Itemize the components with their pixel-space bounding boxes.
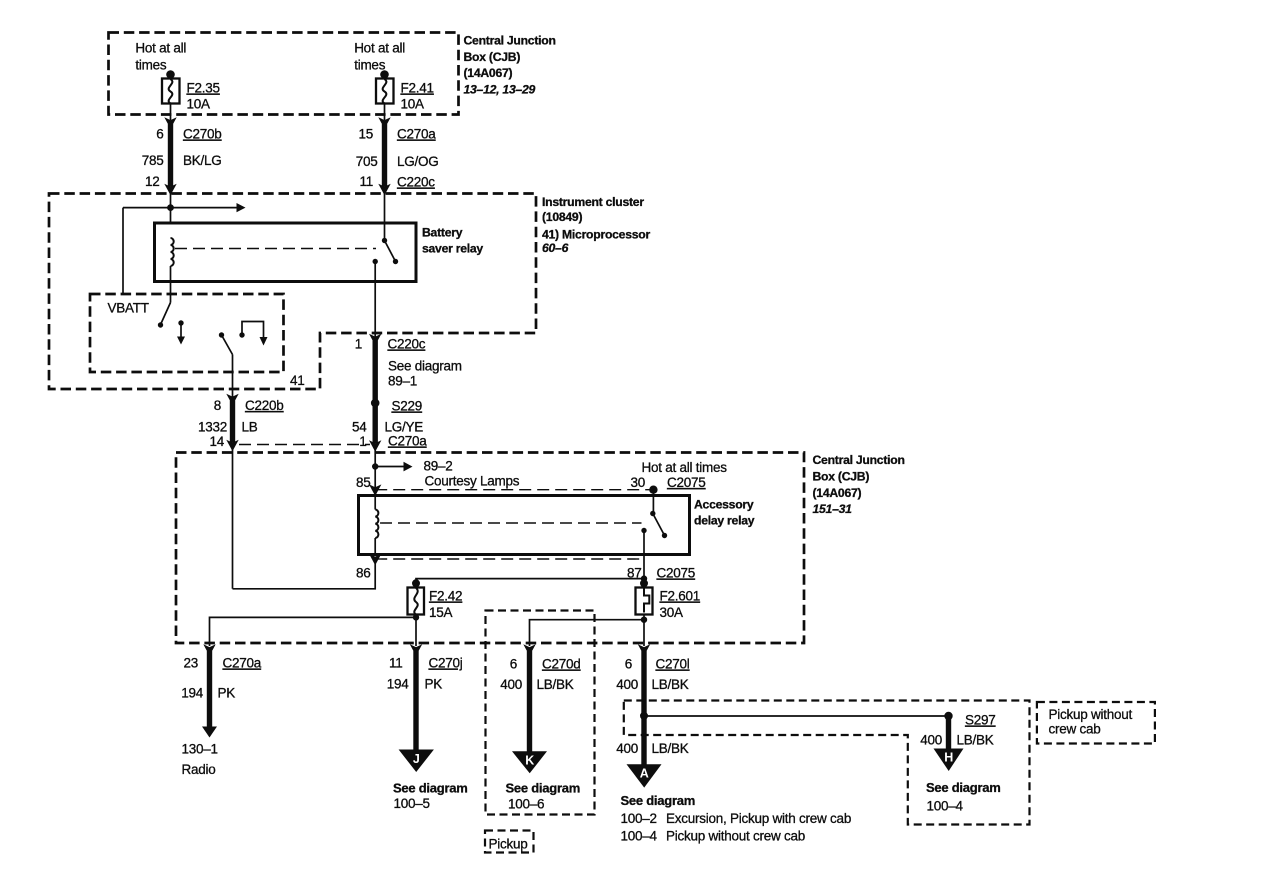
svg-text:1: 1: [359, 434, 366, 449]
fuse F2.601: [636, 579, 701, 620]
wire fuse F2.41 to connector C220c: [378, 104, 390, 241]
svg-text:400: 400: [920, 733, 942, 748]
wire C220c to S229 thick: [369, 334, 381, 510]
label wire C270a pin 15 705 LG/OG pin 11 C220c: [356, 127, 439, 190]
svg-text:H: H: [944, 751, 953, 765]
wire fuse F2.35 to connector C270b: [164, 104, 176, 224]
svg-text:6: 6: [510, 657, 517, 672]
svg-text:Pickup without crew cab: Pickup without crew cab: [666, 829, 805, 844]
connector link C270a dashed line: [239, 444, 370, 446]
svg-text:C270a: C270a: [388, 434, 427, 449]
svg-text:Radio: Radio: [182, 762, 216, 777]
svg-text:Hot at all: Hot at all: [354, 41, 405, 56]
svg-text:Battery: Battery: [422, 226, 463, 240]
svg-text:89–2: 89–2: [424, 459, 453, 474]
svg-text:F2.41: F2.41: [401, 81, 434, 96]
svg-text:194: 194: [181, 686, 204, 701]
svg-text:C220c: C220c: [388, 337, 426, 352]
box Central Junction Box CJB top: [109, 33, 459, 115]
box Pickup without crew cab label dashed: [1037, 702, 1155, 744]
node pin 85 entry: [369, 484, 381, 496]
svg-text:10A: 10A: [401, 97, 425, 112]
svg-text:41) Microprocessor: 41) Microprocessor: [542, 228, 650, 242]
svg-text:Instrument cluster: Instrument cluster: [542, 195, 644, 209]
svg-text:C270a: C270a: [397, 127, 436, 142]
svg-text:Central Junction: Central Junction: [813, 453, 905, 467]
box Central Junction Box CJB lower: [176, 453, 804, 644]
svg-text:785: 785: [142, 153, 164, 168]
svg-text:100–5: 100–5: [394, 796, 430, 811]
svg-text:J: J: [413, 752, 420, 766]
svg-text:LG/YE: LG/YE: [385, 420, 424, 435]
label see diagram 100-6: [506, 781, 581, 812]
svg-text:10A: 10A: [187, 97, 211, 112]
switch accessory delay relay: [641, 511, 667, 579]
relay accessory delay relay box: [359, 496, 755, 555]
svg-text:11: 11: [359, 174, 373, 189]
label see diagram 100-2 100-4: [621, 793, 852, 844]
relay battery saver relay box: [155, 223, 484, 282]
svg-text:11: 11: [389, 656, 403, 671]
connector link pin 85 to pin 30 dashed: [375, 489, 650, 491]
svg-text:194: 194: [387, 677, 410, 692]
svg-text:LB/BK: LB/BK: [652, 741, 689, 756]
svg-text:saver relay: saver relay: [422, 242, 483, 256]
label pin 41: [290, 373, 305, 388]
svg-text:C220b: C220b: [245, 398, 284, 413]
node C270l junction: [640, 712, 648, 720]
svg-text:100–4: 100–4: [927, 799, 964, 814]
label Hot at all times pin 30 C2075: [630, 460, 727, 490]
svg-text:400: 400: [616, 741, 638, 756]
label wire 400 LB/BK below splice: [616, 741, 689, 756]
svg-text:C2075: C2075: [667, 475, 706, 490]
svg-text:705: 705: [356, 154, 378, 169]
label wire pin 6 C270l 400 LB/BK: [616, 657, 690, 693]
svg-text:C270j: C270j: [429, 656, 463, 671]
svg-text:Box (CJB): Box (CJB): [813, 470, 870, 484]
svg-text:Pickup without: Pickup without: [1049, 707, 1133, 722]
fuse F2.41: [376, 70, 434, 111]
wire C270a radio drop: [202, 644, 217, 737]
svg-text:LB/BK: LB/BK: [957, 733, 994, 748]
box Pickup small dashed: [485, 831, 534, 853]
label Hot at all times right: [354, 41, 405, 73]
svg-text:15A: 15A: [429, 605, 453, 620]
box Instrument cluster dashed: [49, 194, 536, 390]
label wire pin 6 C270d 400 LB/BK: [500, 657, 580, 693]
label see diagram 100-4: [926, 780, 1001, 814]
svg-text:Hot at all times: Hot at all times: [642, 460, 728, 475]
node pin 86: [369, 554, 381, 566]
wire S297 drop H: [934, 716, 964, 771]
svg-text:LG/OG: LG/OG: [397, 154, 439, 169]
svg-text:54: 54: [352, 420, 367, 435]
switch battery saver relay: [373, 238, 399, 337]
svg-text:LB/BK: LB/BK: [652, 677, 689, 692]
svg-text:30: 30: [630, 475, 645, 490]
connector link pin 86 to pin 87 dashed: [375, 558, 644, 560]
wire junction to splice S297: [644, 715, 949, 717]
linkage battery saver relay dashed: [175, 248, 376, 250]
fuse F2.35: [162, 70, 220, 111]
wire VBATT arrow feed: [123, 203, 246, 294]
label CJB lower title: [813, 453, 905, 516]
label wire pin 11 C270j 194 PK: [387, 656, 463, 692]
svg-text:K: K: [525, 754, 534, 768]
svg-text:S229: S229: [392, 399, 423, 414]
svg-text:100–6: 100–6: [508, 797, 544, 812]
label wire pin 8 C220b 1332 LB pin 14: [198, 398, 284, 449]
svg-text:Accessory: Accessory: [694, 498, 754, 512]
label node 130-1 Radio: [182, 742, 218, 778]
contact VBATT arrow B: [177, 320, 185, 344]
svg-text:PK: PK: [218, 686, 236, 701]
svg-text:times: times: [135, 58, 167, 73]
label wire C270b pin 6 785 BK/LG pin 12: [142, 127, 222, 190]
svg-text:8: 8: [214, 398, 221, 413]
contact VBATT bracket D: [239, 322, 267, 346]
splice S297: [944, 712, 995, 728]
svg-text:See diagram: See diagram: [506, 781, 581, 796]
label Hot at all times left: [135, 41, 186, 73]
svg-text:15: 15: [358, 127, 373, 142]
svg-text:C2075: C2075: [657, 566, 696, 581]
label pin 87 C2075: [627, 566, 695, 581]
svg-text:89–1: 89–1: [388, 374, 417, 389]
svg-text:(14A067): (14A067): [813, 486, 862, 500]
svg-text:See diagram: See diagram: [621, 793, 696, 808]
svg-text:1: 1: [355, 337, 362, 352]
svg-text:times: times: [354, 58, 386, 73]
svg-text:100–2: 100–2: [621, 811, 657, 826]
label CJB top title: [464, 34, 556, 97]
label wire 400 LB/BK S297: [920, 733, 994, 748]
svg-text:12: 12: [145, 174, 160, 189]
splice S229: [371, 399, 422, 414]
svg-text:(10849): (10849): [542, 210, 582, 224]
svg-text:6: 6: [625, 657, 632, 672]
wire pin 86 loop to LB wire: [233, 559, 376, 589]
label see diagram 100-5: [393, 781, 468, 812]
box pickup dashed C270d region: [486, 611, 595, 815]
svg-text:LB/BK: LB/BK: [537, 677, 574, 692]
wire C270d drop K: [512, 644, 547, 773]
label pin 85: [356, 475, 371, 490]
svg-text:C220c: C220c: [397, 175, 435, 190]
box VBATT dashed: [90, 294, 284, 372]
coil accessory delay relay: [375, 510, 378, 557]
svg-text:PK: PK: [425, 677, 443, 692]
svg-text:A: A: [640, 767, 649, 781]
coil battery saver relay: [171, 238, 174, 303]
fuse F2.42: [408, 579, 463, 620]
switch VBATT contact C: [219, 332, 233, 397]
svg-text:Box (CJB): Box (CJB): [464, 50, 521, 64]
svg-text:1332: 1332: [198, 420, 227, 435]
wire C270j drop J: [399, 644, 434, 772]
svg-text:14: 14: [209, 434, 224, 449]
svg-text:VBATT: VBATT: [108, 301, 149, 316]
svg-text:85: 85: [356, 475, 371, 490]
label wire pin 1 C220c see diagram 89-1: [355, 337, 462, 389]
svg-text:60–6: 60–6: [542, 241, 569, 255]
wire pin 87 to fuse F2.42: [416, 579, 644, 588]
box pickup without crew cab flag dashed: [624, 701, 1030, 825]
label wire 54 LG/YE pin 1 C270a: [352, 420, 427, 450]
svg-text:See diagram: See diagram: [388, 359, 462, 374]
svg-text:LB: LB: [242, 420, 258, 435]
svg-text:F2.35: F2.35: [187, 81, 220, 96]
wire C270l drop A: [627, 644, 662, 787]
label pin 86: [356, 566, 371, 581]
svg-text:S297: S297: [965, 713, 996, 728]
node pin 87 junction: [641, 575, 647, 581]
svg-text:30A: 30A: [660, 605, 684, 620]
svg-text:130–1: 130–1: [182, 742, 218, 757]
label wire pin 23 C270a 194 PK: [181, 656, 262, 701]
switch VBATT contact A: [158, 303, 171, 328]
svg-text:See diagram: See diagram: [926, 780, 1001, 795]
svg-text:13–12, 13–29: 13–12, 13–29: [464, 83, 536, 97]
svg-text:100–4: 100–4: [621, 829, 658, 844]
svg-text:delay relay: delay relay: [694, 514, 755, 528]
svg-text:C270d: C270d: [542, 657, 581, 672]
node 89-2 Courtesy Lamps arrow: [372, 459, 520, 489]
svg-text:400: 400: [616, 677, 638, 692]
wire C220b LB lead: [226, 394, 238, 589]
svg-text:See diagram: See diagram: [393, 781, 468, 796]
svg-text:400: 400: [500, 677, 522, 692]
label Instrument cluster title: [542, 195, 650, 255]
svg-text:23: 23: [183, 656, 198, 671]
linkage accessory delay relay dashed: [380, 522, 642, 524]
svg-text:Courtesy Lamps: Courtesy Lamps: [425, 474, 520, 489]
svg-text:86: 86: [356, 566, 371, 581]
svg-text:Excursion, Pickup with crew ca: Excursion, Pickup with crew cab: [666, 811, 851, 826]
svg-text:BK/LG: BK/LG: [183, 153, 222, 168]
wire fuse F2.42 output junction: [210, 614, 420, 646]
node pin 30: [649, 486, 657, 514]
svg-text:F2.601: F2.601: [660, 589, 701, 604]
svg-text:crew cab: crew cab: [1049, 722, 1101, 737]
svg-text:6: 6: [156, 127, 163, 142]
svg-text:41: 41: [290, 373, 305, 388]
svg-text:C270a: C270a: [223, 656, 262, 671]
svg-text:Pickup: Pickup: [489, 837, 528, 852]
svg-text:151–31: 151–31: [813, 502, 853, 516]
svg-text:C270l: C270l: [656, 657, 690, 672]
svg-text:C270b: C270b: [183, 127, 222, 142]
svg-text:F2.42: F2.42: [429, 589, 462, 604]
svg-text:(14A067): (14A067): [464, 66, 513, 80]
wire fuse F2.601 output junction: [530, 615, 648, 647]
svg-text:Central Junction: Central Junction: [464, 34, 556, 48]
svg-text:Hot at all: Hot at all: [135, 41, 186, 56]
